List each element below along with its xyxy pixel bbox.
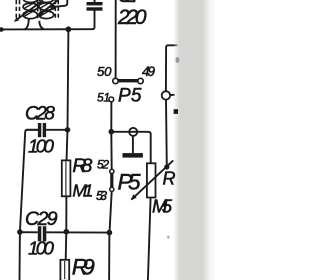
- svg-text:R8: R8: [72, 155, 92, 177]
- svg-text:P5: P5: [118, 170, 141, 195]
- svg-text:R: R: [163, 169, 176, 189]
- svg-text:100: 100: [28, 238, 55, 259]
- svg-text:M1: M1: [72, 180, 93, 200]
- svg-text:M5: M5: [152, 195, 173, 216]
- svg-text:100: 100: [28, 136, 55, 157]
- svg-text:P5: P5: [118, 85, 142, 106]
- svg-text:49: 49: [142, 64, 155, 79]
- svg-text:C28: C28: [25, 104, 55, 125]
- svg-text:51: 51: [97, 91, 110, 105]
- svg-text:50: 50: [97, 64, 112, 79]
- svg-text:53: 53: [96, 189, 107, 203]
- svg-text:R9: R9: [72, 255, 95, 280]
- svg-text:C29: C29: [25, 208, 58, 230]
- svg-text:52: 52: [97, 158, 109, 172]
- svg-text:220: 220: [117, 6, 147, 29]
